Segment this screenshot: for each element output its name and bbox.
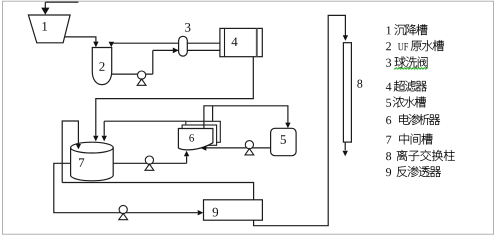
ultrafilter 4 [220,28,262,56]
arrow into column 8 [343,35,348,41]
wire return line to tank 2 [110,41,112,44]
wire feed inlet top [45,2,78,8]
arrow into tank 5 [285,123,290,129]
arrow into tank 2 left [93,42,98,48]
wire tank7 outlet to pump P4 and RO 9 [54,163,198,212]
arrow into tank 2 right [109,42,114,47]
wire return line to RO 9 [62,183,253,200]
pump P1 [137,71,146,85]
ion exchange column 8 [343,43,362,142]
arrow into RO 9 [198,210,204,215]
wire dialyzer6 to tank 7 [104,121,186,136]
wire tank1 to tank2 [65,37,96,42]
arrow A into tank 7 [76,144,81,149]
arrow column 8 outlet [343,151,348,157]
arrow into tank 1 [41,8,49,15]
arrow into dialyzer 6 right [201,146,206,151]
electrodialyzer 6 [178,121,220,150]
wire lower pipe pump-valve3-filter4 [153,49,220,51]
wire filter4 to tank 7 [96,57,254,136]
spellcheck squiggle [394,68,428,70]
arrow up into dialyzer 6 [184,151,189,157]
wire RO return to tank 7 [62,121,78,183]
wire dialyzer 6 to tank 5 [204,106,288,129]
wire tank5 to pump P3 to dialyzer 6 [206,147,271,149]
UF raw water tank 2 [92,48,111,85]
intermediate tank 7 [71,142,114,181]
wire column 8 outlet [344,142,346,150]
arrow C into tank 7 [102,136,107,142]
wire tank2 outlet to pump P1 [110,50,153,74]
concentrate tank 5 [271,128,297,155]
pump P3 [245,141,254,155]
reverse osmosis 9 [204,200,263,220]
arrow into valve 3 [173,48,179,54]
pump P2 [145,156,154,170]
wire RO 9 to ion exchange column 8 [254,15,346,225]
wire tank7 to pump P2 to dialyzer 6 [113,156,186,163]
wire upper pipe tank2-valve3-filter4 [111,42,220,44]
arrow B into tank 7 [93,136,98,142]
legend [386,24,455,177]
ball wash valve 3 [179,23,191,56]
settling tank 1 [28,15,70,43]
pump P4 [119,205,128,219]
